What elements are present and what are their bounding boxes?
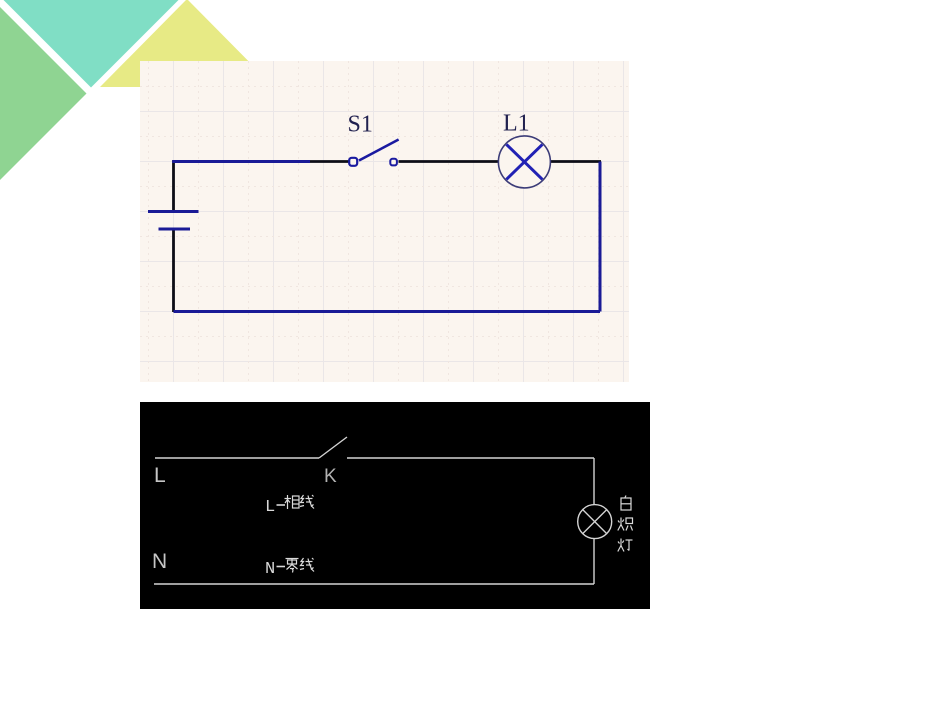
svg-text:S1: S1 <box>348 112 373 138</box>
svg-text:N: N <box>265 560 275 579</box>
svg-text:L: L <box>154 464 166 487</box>
svg-text:K: K <box>324 466 337 487</box>
svg-text:L: L <box>265 498 275 517</box>
svg-text:N: N <box>152 550 167 573</box>
svg-text:L1: L1 <box>503 111 530 137</box>
